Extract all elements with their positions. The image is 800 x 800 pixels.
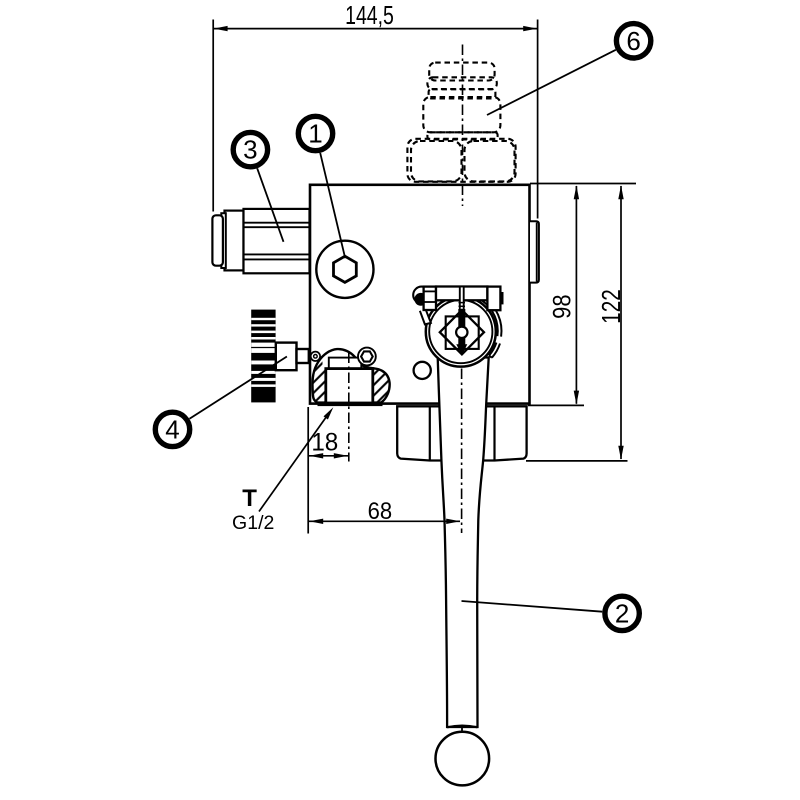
ball knob at lever end bbox=[436, 726, 490, 786]
knurled knob 4 (flow control) bbox=[251, 310, 309, 403]
callout 3 leader bbox=[257, 168, 283, 242]
svg-text:4: 4 bbox=[165, 415, 179, 445]
vent screw (small ringed port left of boss) bbox=[311, 352, 320, 361]
callout 1 leader bbox=[320, 153, 345, 258]
dimension 98 (body height) bbox=[528, 184, 636, 406]
black actuation arrow bbox=[456, 309, 467, 355]
callout 1 bbox=[298, 116, 332, 150]
svg-text:1: 1 bbox=[308, 119, 322, 149]
svg-text:68: 68 bbox=[368, 497, 393, 524]
callout 6 bbox=[616, 24, 650, 58]
dimension 18 (T port offset) bbox=[308, 407, 348, 534]
callout 3 bbox=[233, 132, 267, 166]
svg-text:2: 2 bbox=[615, 599, 629, 629]
svg-text:3: 3 bbox=[243, 135, 257, 165]
svg-text:6: 6 bbox=[626, 26, 640, 56]
pivot ball pin (left, part black) bbox=[413, 287, 430, 306]
lower gland nut (under body) bbox=[397, 406, 526, 460]
svg-text:G1/2: G1/2 bbox=[232, 512, 274, 534]
top fitting centerline bbox=[462, 45, 464, 207]
callout 2 bbox=[605, 596, 639, 630]
spool position indicator: diamond bbox=[440, 310, 484, 354]
svg-text:122: 122 bbox=[597, 289, 626, 324]
dimension 122 (overall height) bbox=[526, 186, 628, 461]
dimension 68 (lever centre offset) bbox=[309, 520, 460, 522]
svg-text:T: T bbox=[242, 485, 257, 512]
dimension 144,5 (top overall width) bbox=[213, 20, 537, 219]
right flange arcs with notch bbox=[482, 298, 502, 358]
main valve body block bbox=[310, 185, 530, 404]
clamp bracket bar bbox=[424, 287, 504, 311]
hex socket plug 1 bbox=[316, 241, 373, 298]
T port centerline bbox=[348, 353, 350, 462]
hand lever 2 (tapered shaft) bbox=[438, 358, 489, 728]
top quick-coupler 6 (hidden lines, dashed) bbox=[407, 63, 515, 182]
lever centerline bbox=[461, 369, 463, 534]
spool position indicator: square bbox=[446, 316, 479, 349]
callout 4 bbox=[155, 412, 189, 446]
small hex screw on boss bbox=[358, 348, 376, 366]
nameplate tab on right edge of body bbox=[530, 221, 539, 282]
svg-text:98: 98 bbox=[548, 294, 576, 318]
left wing tab bbox=[420, 311, 431, 325]
callout 2 leader bbox=[462, 601, 603, 612]
svg-text:144,5: 144,5 bbox=[345, 0, 394, 29]
small circle port on body face bbox=[414, 362, 431, 379]
callout 4 leader bbox=[190, 357, 287, 419]
side port fitting 3 (left, pressure relief cartridge) bbox=[212, 209, 309, 273]
callout 6 leader bbox=[487, 50, 616, 115]
T port boss (cross-hatched section) bbox=[312, 349, 389, 406]
pivot housing circle (valve cap) bbox=[426, 297, 496, 367]
